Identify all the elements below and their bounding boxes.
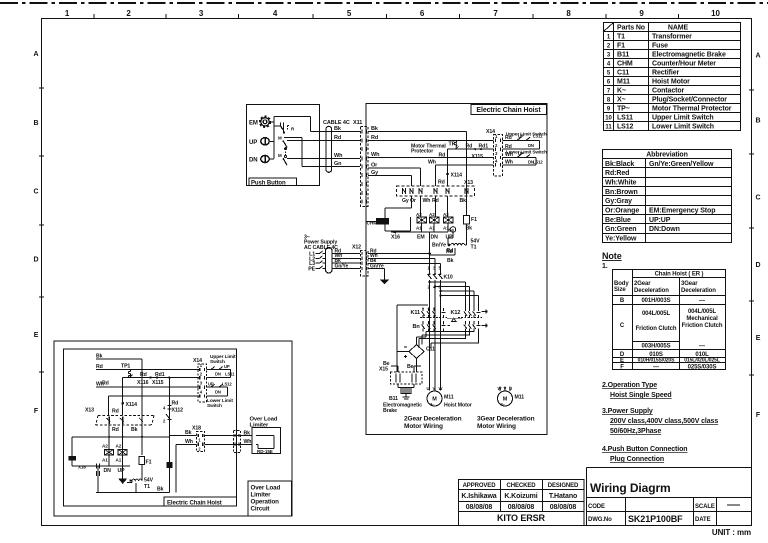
svg-text:Gn/Ye: Gn/Ye — [335, 263, 349, 269]
svg-text:Operation: Operation — [251, 499, 280, 506]
svg-text:004L/005L: 004L/005L — [688, 309, 717, 315]
svg-text:TP1: TP1 — [121, 364, 130, 370]
svg-text:Rd:Red: Rd:Red — [605, 170, 629, 177]
wire Wh from X11 straight to X14 pin3 — [368, 157, 494, 159]
svg-text:X114: X114 — [126, 402, 138, 408]
svg-text:Bn: Bn — [413, 324, 421, 330]
svg-text:50/60Hz,3Phase: 50/60Hz,3Phase — [610, 428, 661, 435]
svg-text:Push Button: Push Button — [251, 180, 286, 186]
svg-text:LS11: LS11 — [617, 115, 633, 122]
fuse F1 — [139, 457, 145, 465]
svg-text:6: 6 — [420, 9, 425, 18]
svg-text:W: W — [439, 386, 443, 391]
svg-text:Wiring Diagrm: Wiring Diagrm — [590, 481, 671, 495]
svg-text:X11: X11 — [353, 120, 362, 126]
svg-text:DWG.No: DWG.No — [588, 517, 612, 523]
svg-text:—: — — [699, 344, 705, 350]
phase verticals to motor — [430, 285, 441, 391]
svg-text:Hoist Motor: Hoist Motor — [444, 403, 472, 409]
svg-text:001H/003S: 001H/003S — [641, 298, 670, 304]
svg-text:EM: EM — [417, 234, 425, 240]
svg-text:Rd: Rd — [172, 401, 179, 407]
brake symbol — [401, 388, 411, 394]
svg-text:Bk:Black: Bk:Black — [605, 161, 634, 168]
svg-text:Electromagnetic Brake: Electromagnetic Brake — [652, 52, 726, 59]
svg-text:UP: UP — [518, 151, 524, 156]
svg-text:Wh: Wh — [505, 152, 513, 158]
electric chain hoist label box — [164, 497, 237, 506]
verticals from X13 down — [385, 196, 467, 231]
svg-text:Wh: Wh — [505, 160, 513, 166]
ruler ticks top — [94, 14, 679, 18]
svg-text:Rd: Rd — [371, 135, 378, 141]
svg-text:Switch: Switch — [207, 403, 222, 409]
svg-text:Protector: Protector — [411, 149, 433, 155]
svg-text:UP: UP — [446, 234, 454, 240]
EM contact — [281, 123, 284, 133]
svg-text:Gn: Gn — [334, 161, 342, 167]
wire Wh — [96, 386, 199, 388]
svg-text:Bk: Bk — [157, 487, 164, 493]
svg-text:X13: X13 — [85, 408, 94, 414]
svg-text:X116: X116 — [137, 380, 149, 386]
X19 connector straddling box edge — [234, 431, 241, 453]
svg-text:Chain Hoist ( ER ): Chain Hoist ( ER ) — [655, 272, 704, 278]
svg-text:3.Power Supply: 3.Power Supply — [602, 408, 653, 415]
svg-text:Fuse: Fuse — [652, 43, 668, 50]
svg-text:Hoist Single Speed: Hoist Single Speed — [610, 392, 672, 399]
svg-text:Parts No: Parts No — [617, 25, 645, 32]
svg-text:Or:Orange: Or:Orange — [605, 208, 639, 215]
svg-text:Note: Note — [602, 251, 622, 261]
svg-text:E: E — [756, 335, 761, 342]
svg-text:X16: X16 — [78, 465, 86, 470]
svg-text:2: 2 — [126, 9, 131, 18]
svg-text:A2: A2 — [443, 212, 449, 217]
svg-text:C11: C11 — [426, 347, 435, 353]
svg-text:X112: X112 — [172, 408, 184, 414]
svg-text:10: 10 — [711, 9, 720, 18]
svg-text:Limiter: Limiter — [251, 492, 272, 499]
svg-text:Or: Or — [410, 198, 416, 204]
svg-text:11: 11 — [605, 125, 612, 131]
svg-text:3: 3 — [199, 9, 204, 18]
svg-text:Friction Clutch: Friction Clutch — [636, 326, 677, 332]
svg-text:Rd: Rd — [140, 372, 147, 378]
svg-text:Rd: Rd — [438, 180, 445, 186]
svg-text:A: A — [756, 53, 761, 60]
K11 row1 contacts — [422, 308, 446, 318]
svg-text:D: D — [34, 257, 39, 264]
ground — [384, 277, 386, 280]
svg-text:LS12: LS12 — [222, 382, 232, 387]
svg-text:015L/020L/025L: 015L/020L/025L — [684, 358, 720, 364]
svg-text:Friction Clutch: Friction Clutch — [682, 323, 723, 329]
ruler numbers top — [65, 9, 721, 18]
stair taps from phase lines to K12 columns — [430, 282, 479, 308]
K12 row1 contacts — [464, 308, 486, 318]
svg-text:Motor Wiring: Motor Wiring — [477, 423, 516, 430]
cable stadium — [326, 126, 332, 172]
interlock dashes — [420, 316, 447, 318]
wire Rd from X11 straight to X14 pin1 — [368, 139, 494, 141]
svg-text:A1: A1 — [102, 458, 108, 463]
zone letters right — [756, 53, 761, 420]
svg-text:E: E — [34, 332, 39, 339]
common line under coils — [391, 223, 448, 232]
svg-text:Deceleration: Deceleration — [634, 288, 669, 294]
K12 row2 contacts — [464, 321, 486, 331]
svg-text:A2: A2 — [416, 212, 422, 217]
svg-text:010H/015S/020S: 010H/015S/020S — [638, 358, 675, 364]
svg-text:Bn:Brown: Bn:Brown — [605, 189, 638, 196]
svg-text:DN: DN — [215, 372, 221, 377]
svg-text:Bk: Bk — [185, 430, 192, 436]
svg-text:M11: M11 — [515, 395, 525, 401]
svg-text:DN:Down: DN:Down — [649, 226, 680, 233]
svg-text:Abbreviation: Abbreviation — [646, 152, 688, 159]
svg-text:B: B — [756, 118, 761, 125]
svg-text:Motor Wiring: Motor Wiring — [404, 423, 443, 430]
svg-text:Wh:White: Wh:White — [605, 180, 637, 187]
svg-text:08/08/08: 08/08/08 — [550, 504, 577, 511]
svg-text:3~: 3~ — [430, 402, 435, 407]
svg-text:K12: K12 — [451, 310, 461, 316]
wire Rd — [96, 369, 199, 371]
svg-text:Brake: Brake — [383, 408, 397, 414]
push button enclosure — [247, 105, 320, 186]
zone ticks left/right — [39, 88, 754, 375]
svg-text:8: 8 — [566, 9, 571, 18]
wire Wh — [287, 158, 360, 160]
svg-text:X13: X13 — [464, 180, 473, 186]
svg-text:Wh: Wh — [185, 439, 193, 445]
svg-text:Gn:Green: Gn:Green — [605, 226, 636, 233]
svg-text:Counter/Hour Meter: Counter/Hour Meter — [652, 61, 716, 68]
inner hoist box — [64, 349, 237, 506]
svg-text:Size: Size — [614, 287, 626, 293]
fuse F1 — [464, 216, 470, 225]
svg-text:PE: PE — [308, 266, 315, 272]
svg-text:Electric Chain Hoist: Electric Chain Hoist — [476, 107, 541, 114]
triangle mark between K11 and K12 — [452, 318, 457, 321]
wire Bk from X11 — [368, 132, 467, 216]
svg-text:Lower Limit Switch: Lower Limit Switch — [652, 124, 714, 131]
svg-text:DN: DN — [104, 468, 112, 474]
svg-text:DN: DN — [249, 158, 257, 164]
svg-text:K.Ishikawa: K.Ishikawa — [461, 493, 496, 500]
pin4 return wire to X13 — [436, 165, 494, 186]
internal wiring — [269, 117, 310, 167]
svg-text:DN: DN — [431, 234, 439, 240]
svg-text:4.Push Button Connection: 4.Push Button Connection — [602, 446, 687, 453]
svg-text:X18: X18 — [192, 426, 201, 432]
svg-text:Rectifier: Rectifier — [652, 70, 679, 77]
svg-text:V: V — [433, 386, 436, 391]
svg-text:M11: M11 — [617, 79, 630, 86]
svg-text:Contactor: Contactor — [652, 88, 685, 95]
svg-text:C: C — [34, 189, 39, 196]
svg-text:Upper Limit Switch: Upper Limit Switch — [652, 115, 714, 122]
svg-text:X114: X114 — [451, 173, 463, 179]
svg-text:X16: X16 — [391, 234, 400, 240]
svg-text:U: U — [509, 386, 512, 391]
svg-text:E: E — [620, 358, 624, 364]
svg-text:K10: K10 — [444, 275, 453, 281]
svg-text:A2: A2 — [116, 444, 122, 449]
bottom stair returns — [419, 331, 479, 349]
svg-text:Over Load: Over Load — [251, 485, 281, 492]
svg-text:UP: UP — [518, 133, 524, 138]
svg-text:08/08/08: 08/08/08 — [466, 504, 493, 511]
svg-text:B11: B11 — [389, 396, 398, 402]
svg-text:Bk: Bk — [244, 430, 251, 436]
svg-text:TP~: TP~ — [617, 106, 630, 113]
svg-text:Gy: Gy — [449, 228, 455, 233]
svg-text:Bk: Bk — [371, 126, 379, 132]
svg-text:A2: A2 — [102, 444, 108, 449]
svg-text:Gn/Ye:Green/Yellow: Gn/Ye:Green/Yellow — [649, 161, 714, 168]
node X114 vertical — [122, 378, 124, 416]
svg-text:SK21P100BF: SK21P100BF — [628, 514, 683, 524]
over load limiter operation circuit label box — [248, 481, 292, 516]
wire Bk top — [96, 359, 142, 455]
outer box — [54, 341, 292, 516]
svg-text:Wh: Wh — [244, 439, 252, 445]
svg-text:3~: 3~ — [501, 402, 506, 407]
svg-text:UP:UP: UP:UP — [649, 217, 671, 224]
svg-text:DN: DN — [215, 389, 221, 394]
svg-text:UP: UP — [208, 382, 214, 387]
svg-text:LS11: LS11 — [533, 133, 543, 138]
svg-text:K.Koizumi: K.Koizumi — [504, 493, 537, 500]
svg-text:—: — — [653, 365, 659, 371]
svg-text:Wh: Wh — [334, 153, 343, 159]
svg-text:Ye:Yellow: Ye:Yellow — [605, 236, 637, 243]
svg-text:APPROVED: APPROVED — [463, 483, 497, 489]
svg-text:X115: X115 — [152, 380, 164, 386]
svg-text:KITO ERSR: KITO ERSR — [497, 513, 546, 523]
svg-text:D: D — [756, 262, 761, 269]
svg-text:Transformer: Transformer — [652, 34, 692, 41]
svg-text:U: U — [427, 386, 430, 391]
svg-text:X12: X12 — [352, 245, 361, 251]
svg-text:—: — — [699, 298, 705, 304]
svg-text:DESIGNED: DESIGNED — [548, 483, 579, 489]
svg-text:SCALE: SCALE — [695, 504, 715, 510]
svg-text:003H/005S: 003H/005S — [641, 344, 670, 350]
CHM counter — [69, 456, 77, 461]
mech link dashed — [285, 149, 287, 158]
svg-text:Rd: Rd — [334, 135, 341, 141]
transformer to bottom wire — [135, 483, 137, 492]
svg-text:AC CABLE 4C: AC CABLE 4C — [304, 245, 338, 251]
svg-text:Plug/Socket/Connector: Plug/Socket/Connector — [652, 97, 727, 104]
svg-text:M: M — [278, 135, 282, 140]
svg-text:Gy:Gray: Gy:Gray — [605, 198, 632, 205]
svg-text:Gy: Gy — [402, 198, 409, 204]
svg-text:Rd: Rd — [112, 427, 119, 433]
svg-text:F1: F1 — [617, 43, 625, 50]
svg-text:4: 4 — [273, 9, 278, 18]
wire Gn — [302, 165, 360, 167]
svg-text:Hoist Motor: Hoist Motor — [652, 79, 690, 86]
svg-text:Bk: Bk — [460, 198, 467, 204]
svg-text:C11: C11 — [617, 70, 629, 77]
svg-text:9: 9 — [639, 9, 644, 18]
svg-text:K11: K11 — [411, 310, 421, 316]
wire Rd1 to X14 pin2 — [448, 148, 494, 150]
svg-text:A: A — [34, 51, 39, 58]
svg-text:Rd: Rd — [96, 364, 103, 370]
wires into box — [368, 232, 441, 277]
svg-text:EM: EM — [249, 121, 258, 127]
svg-text:UNIT : mm: UNIT : mm — [712, 528, 751, 537]
svg-text:M: M — [278, 153, 282, 158]
X12 connector — [360, 251, 368, 277]
svg-text:1: 1 — [65, 9, 70, 18]
svg-text:LS11: LS11 — [225, 372, 235, 377]
ground — [122, 466, 124, 479]
wires from X18 through X19 to device — [205, 435, 253, 437]
svg-text:Wh: Wh — [428, 159, 436, 165]
svg-text:T1: T1 — [471, 245, 477, 251]
svg-text:5: 5 — [347, 9, 352, 18]
top dash-dot trim line — [0, 2, 768, 4]
Gy terminal circle — [450, 227, 456, 233]
svg-text:10: 10 — [605, 116, 612, 122]
svg-text:Deceleration: Deceleration — [681, 288, 716, 294]
svg-text:T.Hatano: T.Hatano — [549, 493, 577, 500]
svg-text:DATE: DATE — [695, 517, 711, 523]
node X114 — [447, 149, 449, 186]
svg-text:C: C — [756, 195, 761, 202]
svg-text:UP: UP — [118, 468, 126, 474]
svg-text:Rd: Rd — [112, 409, 119, 415]
svg-text:F1: F1 — [146, 460, 152, 466]
svg-text:3Gear: 3Gear — [681, 281, 698, 287]
svg-text:Electric Chain Hoist: Electric Chain Hoist — [167, 500, 222, 506]
svg-text:54V: 54V — [144, 478, 154, 484]
svg-text:B11: B11 — [617, 52, 629, 59]
svg-text:2Gear: 2Gear — [634, 281, 651, 287]
svg-text:Bk: Bk — [334, 126, 342, 132]
svg-text:Motor Thermal Protector: Motor Thermal Protector — [652, 106, 732, 113]
svg-text:Wh: Wh — [96, 382, 104, 388]
svg-text:Wh: Wh — [423, 198, 431, 204]
X112 vertical branch — [168, 378, 170, 493]
svg-text:Circuit: Circuit — [251, 506, 270, 513]
svg-text:F1: F1 — [471, 217, 477, 223]
svg-text:LS12: LS12 — [617, 124, 634, 131]
svg-text:K~: K~ — [617, 88, 626, 95]
svg-text:RD-15E: RD-15E — [257, 449, 273, 454]
wire pin4 return — [108, 396, 199, 416]
wire Rd1 pin2 — [123, 377, 199, 379]
svg-text:UP: UP — [249, 140, 257, 146]
common rail + verticals to coils — [72, 437, 169, 456]
bottom rail of coils — [98, 455, 130, 466]
svg-text:EM:Emergency Stop: EM:Emergency Stop — [649, 208, 715, 215]
svg-text:Rd: Rd — [466, 143, 473, 149]
left rect wire to brake — [397, 305, 428, 372]
svg-text:X15: X15 — [379, 367, 388, 373]
svg-text:025S/030S: 025S/030S — [688, 365, 717, 371]
svg-text:Switch: Switch — [210, 359, 225, 365]
svg-text:Rd1: Rd1 — [479, 143, 489, 149]
svg-text:CHECKED: CHECKED — [507, 483, 537, 489]
svg-text:3Gear Deceleration: 3Gear Deceleration — [477, 416, 535, 423]
bottom wire Bk — [96, 491, 169, 493]
svg-text:NAME: NAME — [668, 25, 689, 32]
svg-text:Rd: Rd — [505, 135, 512, 141]
svg-text:B: B — [34, 120, 39, 127]
svg-text:Plug Connection: Plug Connection — [610, 456, 664, 463]
lower limit switch — [207, 387, 228, 396]
svg-text:T1: T1 — [144, 484, 150, 490]
svg-text:Rd: Rd — [446, 249, 453, 255]
svg-text:2Gear Deceleration: 2Gear Deceleration — [404, 416, 462, 423]
svg-text:UP: UP — [224, 364, 230, 369]
svg-text:7: 7 — [493, 9, 498, 18]
svg-text:F: F — [620, 365, 624, 371]
svg-text:Bk: Bk — [447, 258, 454, 264]
svg-text:W: W — [498, 386, 502, 391]
svg-text:Mechanical: Mechanical — [686, 316, 718, 322]
svg-text:Wh: Wh — [371, 152, 380, 158]
svg-text:A2: A2 — [429, 212, 435, 217]
push button label box — [249, 178, 297, 186]
svg-text:Bk: Bk — [131, 427, 138, 433]
svg-text:Or: Or — [371, 162, 378, 168]
svg-text:Bk: Bk — [96, 354, 103, 360]
svg-text:08/08/08: 08/08/08 — [508, 504, 535, 511]
transformer T1 — [141, 465, 143, 481]
svg-text:A1: A1 — [116, 458, 122, 463]
svg-text:200V class,400V class,500V cla: 200V class,400V class,500V class — [610, 418, 718, 425]
svg-text:Gy: Gy — [371, 170, 379, 176]
svg-text:Be: Be — [407, 364, 414, 370]
svg-text:Be:Blue: Be:Blue — [605, 217, 631, 224]
wire Gy from X11 — [368, 176, 411, 187]
svg-text:X~: X~ — [617, 97, 626, 104]
svg-text:Bn/Ye: Bn/Ye — [432, 243, 446, 249]
svg-text:2.Operation Type: 2.Operation Type — [602, 382, 657, 389]
svg-text:M11: M11 — [444, 395, 454, 401]
svg-text:CHM: CHM — [617, 61, 633, 68]
wire Rd — [287, 139, 360, 141]
svg-text:DN: DN — [528, 143, 534, 148]
svg-text:T1: T1 — [617, 34, 625, 41]
svg-text:004L/005L: 004L/005L — [642, 311, 671, 317]
svg-text:1.: 1. — [602, 263, 608, 270]
zone letters left — [34, 51, 39, 415]
svg-text:LS12: LS12 — [533, 160, 543, 165]
wire Bk — [311, 131, 361, 133]
wire Or from X11 — [368, 168, 421, 186]
svg-text:CODE: CODE — [588, 504, 605, 510]
